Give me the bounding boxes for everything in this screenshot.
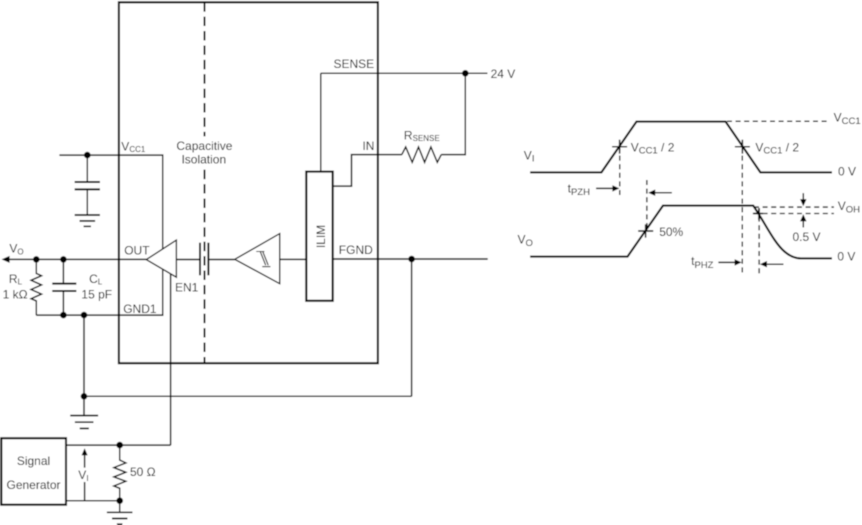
op-amp output buffer A1 bbox=[146, 240, 176, 277]
dashed line tPHZ start bbox=[741, 147, 743, 274]
svg-text:GND1: GND1 bbox=[123, 302, 157, 316]
ground below VCC1 capacitor bbox=[75, 215, 100, 226]
wire signal generator output bbox=[66, 444, 171, 446]
arrow left of tPHZ interval bbox=[766, 263, 783, 265]
svg-text:Signal: Signal bbox=[17, 454, 50, 468]
ILIM block U2 bbox=[306, 172, 332, 301]
arrow left of tPZH interval bbox=[655, 192, 672, 194]
ground below GND1 rail bbox=[83, 396, 85, 415]
node ground rail junction bbox=[81, 393, 88, 400]
svg-text:FGND: FGND bbox=[339, 243, 373, 257]
wire GND1 down to ground rail bbox=[83, 315, 85, 396]
VCC1 level dashed line bbox=[727, 120, 830, 122]
wire FGND down to ground rail bbox=[411, 259, 413, 396]
resistor RL bbox=[31, 259, 41, 315]
dashed line tPZH start bbox=[619, 147, 621, 195]
IC main box U1 bbox=[119, 2, 378, 363]
svg-text:SENSE: SENSE bbox=[334, 57, 375, 71]
VOH level dashed line bbox=[754, 206, 834, 208]
wire OUT net with VO arrow bbox=[9, 258, 146, 260]
svg-text:Isolation: Isolation bbox=[181, 152, 226, 166]
hysteresis symbol inside A2 bbox=[256, 252, 270, 267]
capacitor bypass on VCC1 bbox=[86, 155, 88, 214]
wire FGND net bbox=[333, 258, 488, 260]
node VCC1 junction bbox=[84, 152, 91, 159]
arrow down to VOH line bbox=[802, 193, 804, 200]
resistor RSENSE bbox=[402, 147, 442, 162]
svg-text:EN1: EN1 bbox=[175, 280, 199, 294]
svg-text:0 V: 0 V bbox=[837, 250, 855, 264]
node GND1 junction at CL bbox=[60, 312, 67, 319]
svg-text:IN: IN bbox=[362, 139, 374, 153]
node cross VI rising midpoint bbox=[612, 140, 627, 154]
svg-text:50 Ω: 50 Ω bbox=[130, 465, 156, 479]
node FGND junction bbox=[408, 256, 415, 263]
wire VCC1 pin loop to GND1 bbox=[36, 155, 162, 315]
svg-text:0.5 V: 0.5 V bbox=[793, 230, 821, 244]
svg-text:ILIM: ILIM bbox=[314, 225, 328, 248]
waveform VO bbox=[530, 206, 832, 259]
dashed line tPHZ end bbox=[758, 208, 760, 274]
node OUT junction at RL bbox=[33, 256, 40, 263]
svg-text:50%: 50% bbox=[659, 225, 683, 239]
0.5V below VOH dashed line bbox=[754, 213, 834, 215]
node cross VI falling midpoint bbox=[735, 140, 750, 154]
svg-text:OUT: OUT bbox=[124, 244, 150, 258]
svg-text:24 V: 24 V bbox=[491, 67, 516, 81]
signal generator box bbox=[1, 438, 66, 505]
node cross VO rising 50% bbox=[638, 224, 653, 237]
node GND1 junction at ground branch bbox=[81, 312, 88, 319]
node 50 ohm bottom junction bbox=[116, 497, 123, 504]
wire IN net from ILIM bbox=[333, 155, 402, 187]
ground below 50 ohm bbox=[119, 501, 121, 512]
dashed line tPZH end bbox=[646, 180, 648, 231]
node VI measurement arrow bbox=[82, 448, 88, 455]
capacitor isolation barrier bbox=[200, 243, 208, 276]
node cross VO fall 0.5V point bbox=[753, 208, 763, 220]
svg-text:Generator: Generator bbox=[6, 478, 60, 492]
capacitive isolation barrier dashed line bbox=[204, 2, 206, 363]
op-amp schmitt buffer A2 bbox=[235, 234, 280, 284]
wire RSENSE to 24V node bbox=[441, 73, 465, 154]
arrow up to 0.5V line bbox=[802, 220, 804, 227]
node VO arrowhead bbox=[2, 256, 10, 263]
wire 24V stub bbox=[465, 72, 487, 74]
node 24V junction bbox=[462, 70, 469, 77]
node 50 ohm top junction bbox=[116, 442, 123, 449]
svg-text:1 kΩ: 1 kΩ bbox=[3, 287, 28, 301]
node OUT junction at CL bbox=[60, 256, 67, 263]
wire signal generator return bbox=[66, 500, 120, 502]
capacitor CL bbox=[62, 259, 64, 315]
wire EN1 from buffer to signal source bbox=[170, 274, 172, 445]
wire isolation capacitor to schmitt buffer bbox=[208, 259, 234, 261]
wire SENSE net bbox=[321, 73, 466, 171]
wire ground rail to FGND return bbox=[84, 395, 412, 397]
svg-text:Capacitive: Capacitive bbox=[176, 139, 232, 153]
resistor 50 ohm bbox=[114, 445, 126, 501]
svg-text:0 V: 0 V bbox=[838, 165, 856, 179]
wire schmitt buffer to ILIM block bbox=[280, 258, 307, 260]
svg-text:15 pF: 15 pF bbox=[81, 287, 112, 301]
waveform VI bbox=[530, 122, 832, 173]
wire buffer input to isolation capacitor bbox=[176, 259, 200, 261]
